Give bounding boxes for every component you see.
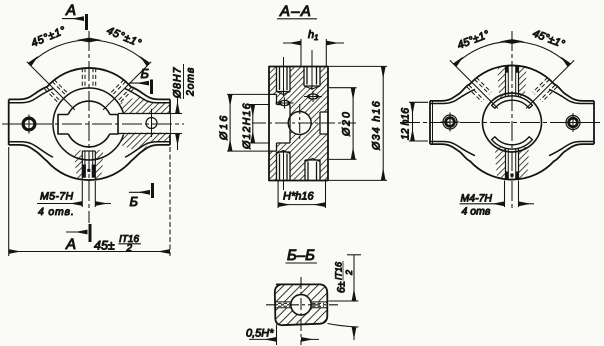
svg-text:4 отв: 4 отв	[462, 206, 491, 218]
svg-text:M5-7H: M5-7H	[40, 191, 74, 203]
svg-text:A: A	[65, 2, 76, 19]
6 IT16/2 dim	[329, 300, 359, 302]
body outline outer top	[430, 65, 594, 100]
recess circle dia 36	[53, 88, 125, 160]
svg-text:45°±1°: 45°±1°	[531, 28, 567, 51]
svg-text:1: 1	[314, 33, 318, 42]
A-A outline	[269, 67, 328, 181]
section plane A bottom arrow	[89, 224, 92, 242]
right lug hole band dia 8H7	[118, 113, 170, 115]
band cutout white	[113, 113, 170, 135]
W notch	[58, 115, 68, 135]
svg-text:6±: 6±	[336, 281, 348, 293]
right lug hole	[564, 113, 583, 132]
bore dia 20 with keyway notches	[68, 101, 110, 147]
body outline outer bottom	[9, 145, 170, 180]
svg-text:45±: 45±	[94, 239, 115, 253]
N channel hatch right band	[519, 66, 527, 98]
left lug end face	[429, 101, 431, 144]
h1 dim	[300, 39, 302, 66]
svg-text:Ø34 h16: Ø34 h16	[371, 100, 383, 151]
hatched section, right lug lower	[121, 133, 171, 153]
0,5H* dim	[276, 325, 278, 346]
threaded holes (hidden) at 0 and +-45 deg	[82, 68, 95, 88]
dia12H16 dim	[250, 104, 271, 106]
right lug end face	[169, 99, 171, 144]
svg-text:A–A: A–A	[279, 3, 312, 20]
left lug hole	[441, 113, 460, 132]
svg-text:Ø12H16: Ø12H16	[241, 102, 253, 150]
svg-text:45°±1°: 45°±1°	[29, 24, 68, 49]
H* h16 dim	[277, 181, 279, 208]
A-A oblique hole openings	[276, 98, 294, 109]
S channel hatch right band	[519, 147, 529, 180]
hatched section, bottom hole right band	[95, 150, 103, 180]
svg-text:2: 2	[344, 270, 354, 276]
hatched section, right lug upper	[121, 96, 171, 114]
left lug end face	[8, 99, 10, 144]
drill tips	[277, 86, 321, 162]
svg-text:Б: Б	[141, 66, 150, 81]
A-A hole walls	[269, 67, 328, 181]
45deg axes	[450, 60, 498, 108]
svg-text:Ø8H7: Ø8H7	[172, 66, 184, 99]
svg-text:H*h16: H*h16	[283, 191, 314, 203]
section plane B lower arrow	[151, 183, 154, 198]
svg-text:Б–Б: Б–Б	[287, 247, 315, 264]
centerlines right view	[400, 31, 603, 210]
M4-7H 4 holes dim	[504, 181, 506, 208]
M5-7H 4 holes dim	[81, 181, 83, 207]
svg-text:0,5H*: 0,5H*	[246, 328, 274, 340]
svg-text:Ø16: Ø16	[218, 114, 230, 141]
right lug end face	[593, 101, 595, 144]
S channel M4 hole section	[506, 148, 519, 179]
E notch	[110, 115, 118, 135]
body outline outer bottom	[430, 144, 594, 179]
inner arc band top	[492, 96, 533, 108]
dia 8H7 2 holes dim	[171, 113, 182, 115]
svg-text:45°±1°: 45°±1°	[105, 25, 144, 50]
S channel hatch left band	[495, 147, 505, 180]
A-A center hole	[288, 112, 311, 135]
svg-text:12 h16: 12 h16	[400, 108, 412, 140]
svg-text:45°±1°: 45°±1°	[456, 28, 492, 51]
dia20 dim	[329, 87, 357, 89]
dia34h16 dim	[329, 65, 387, 67]
hidden 45deg holes	[467, 77, 491, 101]
svg-text:Б: Б	[130, 194, 139, 209]
svg-text:Ø20: Ø20	[341, 110, 353, 137]
45 IT16/2 dim	[8, 147, 10, 256]
hatched section, bottom hole left band	[75, 150, 83, 180]
B-B block hatched	[275, 284, 328, 325]
centerlines left view	[2, 31, 184, 223]
lug joint lines inner	[430, 89, 475, 103]
svg-text:2: 2	[126, 243, 133, 254]
N channel hatch left band	[498, 66, 506, 98]
dia16 dim	[227, 93, 270, 95]
right lug cross hole	[146, 118, 157, 129]
B-B thread band	[276, 302, 327, 308]
section plane B upper arrow	[150, 80, 153, 95]
svg-text:M4-7H: M4-7H	[461, 193, 493, 205]
angle arcs	[455, 41, 512, 65]
left lug hole dia 8	[23, 118, 35, 130]
bore circle	[483, 93, 542, 152]
bottom hole M5 section	[81, 151, 83, 180]
lug joint face lines (inner)	[9, 89, 53, 103]
A-A hatched body	[269, 67, 328, 181]
N channel M4 hole section	[506, 66, 519, 97]
svg-text:IT16: IT16	[334, 262, 344, 280]
svg-text:4 отв.: 4 отв.	[38, 206, 75, 218]
45deg hole axes	[27, 62, 75, 110]
svg-text:A: A	[65, 236, 76, 253]
section plane A top arrow	[85, 14, 88, 30]
body outline outer top	[9, 68, 170, 99]
inner arc band bottom	[492, 137, 533, 149]
B-B hole	[291, 295, 311, 315]
12 h16 dim	[409, 101, 428, 103]
svg-text:2отв: 2отв	[185, 67, 197, 97]
angle dim arcs 45deg	[30, 40, 89, 65]
